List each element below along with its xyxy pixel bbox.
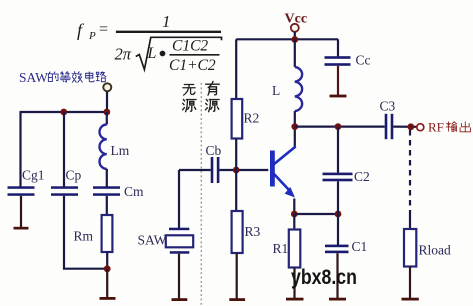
Vcc terminal [291,24,299,32]
svg-text:ybx8.cn: ybx8.cn [291,266,357,289]
resistor R1 [273,230,301,268]
svg-text:SAW: SAW [19,70,48,85]
ground Cg1 [14,227,29,230]
wire emitter stem [293,199,295,215]
wire Cc stem [337,39,339,56]
svg-text:Cg1: Cg1 [22,168,45,183]
svg-text:Lm: Lm [111,143,130,158]
svg-text:C1: C1 [352,239,368,254]
wire L stem [294,39,296,67]
wire Lm to Cm [106,169,108,187]
wire SAW stem [178,170,180,228]
svg-text:1: 1 [162,12,171,31]
wire Cb to base [219,169,268,171]
label active (yuan) [206,100,220,112]
inductor Lm [100,125,130,169]
transistor Q1 emitter stroke with arrow [274,174,296,198]
wire R3 stem [235,170,237,211]
capacitor C1 [325,239,367,254]
label active (you) [206,81,220,95]
label passive (wu) [183,84,195,95]
wire R2 to base node [235,139,237,171]
resistor R3 [232,211,261,253]
capacitor C2 [323,169,370,184]
wire R2 stem [235,39,237,99]
junction dot C2 top [335,123,342,130]
wire Cp bottom to common node [64,196,107,269]
ground lead Cc [337,66,339,95]
wire Rm to common node [106,252,108,269]
inductor L [272,67,302,111]
label passive (yuan) [183,100,197,112]
svg-text:C1C2: C1C2 [172,38,208,55]
svg-text:L: L [147,45,157,62]
wire collector horizontal [295,125,385,127]
ground R1 [286,298,304,301]
junction dot common node [104,265,111,272]
svg-text:C1+C2: C1+C2 [169,57,216,74]
svg-text:C2: C2 [354,169,370,184]
separator dotted line passive/active [200,83,202,306]
ground lead Rload [409,267,411,299]
svg-text:Cc: Cc [356,53,371,68]
ground lead SAW [178,254,180,299]
svg-text:Cp: Cp [66,168,82,183]
wire C3 to RF out [393,125,416,127]
capacitor Cb [206,143,222,183]
ground lead common node [106,269,108,298]
wire middle branch to Cp [63,112,65,187]
wire left branch to Cg1 [19,112,21,187]
transistor Q1 base bar [270,151,275,187]
svg-text:SAW: SAW [138,233,167,248]
ground lead Cg1 [20,196,22,228]
ground SAW [172,298,188,301]
resistor R2 [232,99,260,139]
svg-text:Rload: Rload [419,243,451,258]
resistor Rm [74,215,113,252]
svg-text:RF: RF [428,120,444,135]
svg-text:P: P [88,30,96,42]
capacitor Cc [325,53,371,68]
ground Cc [330,95,347,98]
wire top horizontal of equivalent circuit [20,111,108,113]
wire top rail Vcc [236,38,338,40]
wire R1 stem [293,214,295,230]
ground lead R3 [236,253,238,299]
wire C2 stem bottom [337,181,339,214]
ground lead R1 [293,268,295,299]
capacitor Cg1 [8,168,45,196]
wire emitter horizontal [294,213,338,215]
junction dot Vcc rail [291,36,298,43]
svg-text:Rm: Rm [74,229,94,244]
wire Rload dashed link [409,130,411,213]
ground common node [100,297,116,300]
capacitor Cm [93,184,144,199]
svg-text:Cb: Cb [206,143,222,158]
node junction dot left [60,109,67,116]
ground Rload [402,298,419,301]
svg-text:2π: 2π [115,45,132,64]
capacitor C3 [380,99,396,140]
wire Cm to Rm [106,196,108,215]
wire SAW top horizontal [179,169,211,171]
SAW resonator [138,228,194,254]
wire terminal stem [106,92,108,113]
junction dot emitter node [291,211,298,218]
capacitor Cp [51,168,82,196]
RF output terminal [417,124,424,131]
svg-text:C3: C3 [380,99,396,114]
ground lead C1 [336,253,338,298]
ground C1 [329,298,346,301]
svg-text:R2: R2 [244,111,260,126]
node junction dot right [103,109,110,116]
label: SAW equivalent circuit title [19,70,106,85]
transistor Q1 collector stroke [274,147,296,165]
wire Lm branch top [106,112,108,125]
svg-text:L: L [272,83,280,98]
junction dot collector node [291,123,298,130]
wire C2 stem top [337,127,339,173]
junction dot base node [233,167,240,174]
wire C1 stem [337,214,339,245]
resistor Rload [404,229,451,267]
svg-text:R1: R1 [273,241,289,256]
wire Vcc stem [294,32,296,40]
svg-text:R3: R3 [245,224,261,239]
ground R3 [229,298,245,301]
junction dot RF node [407,123,414,130]
wire L to collector [294,111,296,148]
label RF output [428,120,470,135]
formula f_P = 1 / (2*pi*sqrt(L*C1C2/(C1+C2))) [77,12,222,74]
input terminal node [103,83,111,91]
wire Rload stem [409,213,411,229]
svg-text:Cm: Cm [124,184,144,199]
svg-text:=: = [99,21,108,38]
junction dot C1 top [335,211,342,218]
